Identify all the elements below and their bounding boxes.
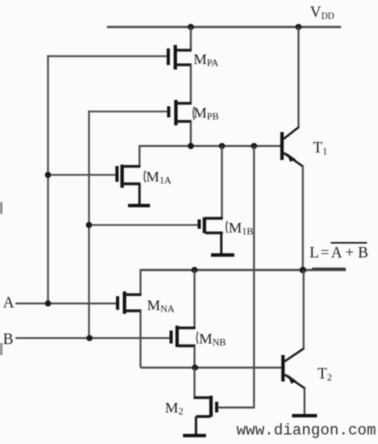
wire T2 base line xyxy=(141,367,282,369)
wire input line B xyxy=(16,337,170,339)
wire MPB gate to left vertical xyxy=(88,111,167,339)
wire MPA source to MPB drain xyxy=(190,65,192,104)
node A column junction xyxy=(45,300,51,306)
wire M1B gate lead xyxy=(88,224,198,226)
svg-text:T1: T1 xyxy=(313,140,327,158)
wire T2 emitter down to ground xyxy=(304,388,306,414)
wire VDD top rail xyxy=(107,26,341,28)
transistor MPA xyxy=(168,45,191,70)
wire M2 gate lead to long vertical xyxy=(218,407,255,409)
wire T1 collector to rail xyxy=(298,27,300,127)
transistor MNB xyxy=(171,326,195,347)
node M2 drain on base line xyxy=(192,365,198,371)
svg-text:MNB: MNB xyxy=(199,332,226,349)
svg-text:www.diangon.com: www.diangon.com xyxy=(237,422,377,440)
wire T1 base line xyxy=(140,145,281,147)
node junction on rail (T1 collector) xyxy=(295,24,301,30)
wire output line L xyxy=(141,269,347,271)
svg-text:=: = xyxy=(321,245,330,262)
node M1B gate on B column xyxy=(86,222,92,228)
svg-text:VDD: VDD xyxy=(310,4,335,21)
label L = A + B with overline xyxy=(310,243,369,262)
wire MPA gate to left vertical xyxy=(47,55,167,303)
node B column junction xyxy=(86,335,92,341)
left edge scan mark 1 xyxy=(0,202,2,214)
ground of M1B xyxy=(211,233,234,255)
wire T2 collector up to output line xyxy=(303,270,305,349)
transistor M1B xyxy=(199,217,223,233)
svg-text:A + B: A + B xyxy=(331,245,368,262)
wire MNA drain up to output line xyxy=(140,269,142,294)
svg-text:L: L xyxy=(310,245,319,262)
node T1 emitter / T2 collector on output line xyxy=(300,267,307,274)
svg-text:A: A xyxy=(3,295,15,312)
wire MNB drain up to output line xyxy=(194,270,196,328)
ground of T2 xyxy=(292,414,317,417)
wire M2 drain up to T2 base line xyxy=(194,368,196,398)
scan artifact before M1A xyxy=(144,171,145,183)
wire M1A gate lead xyxy=(47,174,115,176)
node M1B drain on base line xyxy=(219,143,225,149)
node junction on rail (MPA drain column) xyxy=(188,24,194,30)
scan artifact before MPB xyxy=(193,107,194,121)
ground of M1A xyxy=(128,184,150,206)
wire M1B drain up to base line xyxy=(221,146,223,218)
wire MNA source down to emitter line xyxy=(140,311,142,368)
wire MPB source down to T1 base line xyxy=(190,121,192,146)
svg-text:M2: M2 xyxy=(165,401,183,418)
transistor M1A xyxy=(117,165,140,188)
svg-text:M1B: M1B xyxy=(229,221,254,238)
wire T1 emitter down to output line xyxy=(302,166,304,270)
wire MNB source down to emitter line xyxy=(194,346,196,368)
node M1A gate on A column xyxy=(45,172,51,178)
transistor MNA xyxy=(118,291,142,313)
svg-text:MNA: MNA xyxy=(147,298,175,315)
label VDD xyxy=(310,4,335,21)
transistor M2 (mirrored) xyxy=(194,396,217,417)
wire long vertical base line to M2 gate xyxy=(253,146,255,408)
wire M1A drain up to base line xyxy=(139,145,141,166)
scan artifact before MNB xyxy=(197,332,198,344)
wire rail to MPA drain xyxy=(190,27,192,50)
transistor T1 xyxy=(282,127,303,167)
wire retrace over output line right of junction xyxy=(312,268,346,270)
svg-text:MPA: MPA xyxy=(194,52,219,69)
svg-text:M1A: M1A xyxy=(146,170,171,187)
svg-text:MPB: MPB xyxy=(194,106,220,123)
node M2 gate column on base line xyxy=(251,143,257,149)
transistor T2 xyxy=(283,348,305,388)
ground of M2 xyxy=(183,417,206,436)
node MNB drain on output line xyxy=(191,267,197,273)
node MPB source on base line xyxy=(188,143,194,149)
svg-text:T2: T2 xyxy=(318,366,332,384)
wire input line A xyxy=(16,302,117,304)
svg-text:B: B xyxy=(3,331,13,348)
transistor MPB xyxy=(169,100,192,125)
scan artifact before M1B xyxy=(226,221,227,233)
left edge scan mark 2 xyxy=(0,343,2,355)
